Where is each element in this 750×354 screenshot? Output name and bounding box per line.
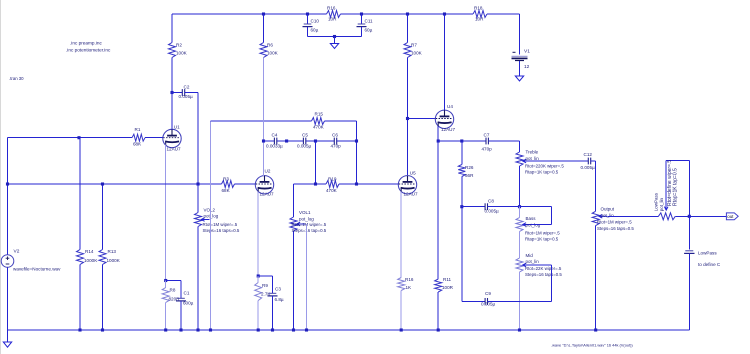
svg-text:C2: C2: [184, 85, 190, 90]
svg-text:100K: 100K: [176, 51, 188, 56]
svg-text:600µ: 600µ: [183, 301, 194, 306]
svg-text:.inc preamp.inc: .inc preamp.inc: [70, 41, 102, 46]
svg-text:470p: 470p: [331, 144, 342, 149]
svg-text:10R: 10R: [475, 17, 484, 22]
svg-text:R13: R13: [108, 249, 117, 254]
svg-text:R16: R16: [327, 6, 336, 11]
svg-text:R1: R1: [135, 127, 141, 132]
svg-text:R6: R6: [267, 43, 273, 48]
svg-text:VOL1: VOL1: [299, 210, 311, 215]
svg-text:Treble: Treble: [526, 150, 539, 155]
svg-text:Steps=16 taps=0.5: Steps=16 taps=0.5: [597, 226, 634, 231]
svg-text:R11: R11: [443, 277, 452, 282]
svg-text:C11: C11: [365, 19, 374, 24]
svg-text:1000K: 1000K: [84, 258, 98, 263]
svg-text:60µ: 60µ: [365, 28, 373, 33]
svg-text:R7: R7: [411, 43, 417, 48]
svg-text:68K: 68K: [133, 142, 142, 147]
svg-text:100K: 100K: [267, 51, 279, 56]
svg-text:C4: C4: [272, 133, 278, 138]
svg-text:LowPass: LowPass: [654, 192, 659, 211]
svg-text:12AU7: 12AU7: [404, 192, 418, 197]
svg-text:Mid: Mid: [526, 253, 534, 258]
svg-text:470p: 470p: [482, 147, 493, 152]
svg-text:12AU7: 12AU7: [441, 127, 455, 132]
svg-text:0.005µ: 0.005µ: [179, 94, 193, 99]
svg-text:U1: U1: [174, 124, 180, 129]
svg-text:Steps=16 taps=0.5: Steps=16 taps=0.5: [525, 272, 562, 277]
svg-text:12: 12: [524, 64, 530, 70]
svg-text:0.005µ: 0.005µ: [485, 209, 499, 214]
svg-text:V1: V1: [524, 49, 530, 55]
svg-text:Rtot=1M wiper=.5: Rtot=1M wiper=.5: [597, 220, 632, 225]
svg-text:LowPass: LowPass: [698, 250, 717, 255]
svg-text:C8: C8: [488, 199, 494, 204]
svg-text:U5: U5: [410, 170, 416, 175]
svg-text:pot_lin: pot_lin: [659, 198, 664, 212]
svg-text:R8: R8: [170, 288, 176, 293]
svg-text:pot_log: pot_log: [299, 217, 314, 222]
svg-text:C5: C5: [302, 133, 308, 138]
svg-text:R2: R2: [176, 43, 182, 48]
svg-text:R18: R18: [474, 6, 483, 11]
svg-text:0.005µ: 0.005µ: [581, 165, 595, 170]
svg-text:Rtot=22K wiper=.5: Rtot=22K wiper=.5: [525, 266, 562, 271]
svg-text:C10: C10: [311, 19, 320, 24]
svg-text:VOL2: VOL2: [204, 208, 216, 213]
svg-text:10R: 10R: [328, 17, 337, 22]
svg-text:470K: 470K: [313, 125, 325, 130]
svg-text:C12: C12: [584, 152, 593, 157]
svg-text:.tran 30: .tran 30: [9, 76, 24, 81]
svg-text:Output: Output: [601, 207, 615, 212]
svg-text:6.8µ: 6.8µ: [275, 297, 284, 302]
svg-text:C9: C9: [485, 291, 491, 296]
svg-text:Steps=16 taps=0.5: Steps=16 taps=0.5: [203, 228, 240, 233]
svg-text:Rtot=1M wiper=.5: Rtot=1M wiper=.5: [292, 222, 327, 227]
svg-text:12AU7: 12AU7: [167, 146, 181, 151]
svg-text:pot_lin: pot_lin: [526, 259, 540, 264]
svg-text:60µ: 60µ: [311, 28, 319, 33]
svg-text:.inc potentiometer.inc: .inc potentiometer.inc: [66, 48, 111, 53]
svg-text:pot_lin: pot_lin: [601, 213, 615, 218]
svg-text:0.0033µ: 0.0033µ: [266, 144, 283, 149]
svg-text:470K: 470K: [326, 188, 338, 193]
svg-text:R10: R10: [328, 177, 337, 182]
svg-text:Rtap=1K tap=0.5: Rtap=1K tap=0.5: [673, 168, 679, 206]
svg-text:pot_log: pot_log: [204, 214, 219, 219]
svg-text:R15: R15: [315, 112, 324, 117]
svg-text:R3: R3: [223, 177, 229, 182]
svg-text:Rtot=220K wiper=.5: Rtot=220K wiper=.5: [525, 163, 564, 168]
svg-text:12AU7: 12AU7: [260, 192, 274, 197]
svg-text:to define C: to define C: [698, 262, 721, 267]
svg-text:R16: R16: [405, 277, 414, 282]
svg-text:U2: U2: [265, 168, 271, 173]
svg-text:out: out: [727, 214, 734, 219]
svg-text:Rtap=1K tap=0.5: Rtap=1K tap=0.5: [525, 170, 559, 175]
svg-text:100K: 100K: [411, 51, 423, 56]
svg-text:Bass: Bass: [526, 216, 537, 221]
svg-text:R9: R9: [262, 283, 268, 288]
svg-text:0.005µ: 0.005µ: [297, 144, 311, 149]
svg-text:R26: R26: [465, 165, 474, 170]
svg-text:1000K: 1000K: [107, 258, 121, 263]
svg-text:U4: U4: [447, 104, 453, 109]
svg-text:1K: 1K: [406, 285, 413, 290]
svg-text:Rtot=1M wiper=.5: Rtot=1M wiper=.5: [525, 231, 560, 236]
svg-text:C1: C1: [184, 291, 190, 296]
svg-text:Rtap=1K tap=0.5: Rtap=1K tap=0.5: [525, 237, 559, 242]
svg-text:C3: C3: [275, 287, 281, 292]
svg-text:wavefile=Nocturne.wav: wavefile=Nocturne.wav: [13, 267, 61, 272]
svg-text:Steps=16 tap=0.5: Steps=16 tap=0.5: [292, 228, 327, 233]
svg-text:68K: 68K: [222, 188, 231, 193]
svg-text:pot_lin: pot_lin: [526, 156, 540, 161]
svg-text:.wave "D:\L.Taylor\Allen01.wav: .wave "D:\L.Taylor\Allen01.wav" 16 44k (…: [551, 342, 633, 347]
svg-text:100R: 100R: [442, 285, 454, 290]
svg-text:R14: R14: [85, 249, 94, 254]
svg-text:Rtot=1M wiper=.5: Rtot=1M wiper=.5: [203, 222, 238, 227]
svg-text:V2: V2: [14, 249, 20, 255]
svg-text:C6: C6: [332, 133, 338, 138]
svg-text:56R: 56R: [465, 173, 474, 178]
svg-text:C7: C7: [484, 133, 490, 138]
svg-text:0.005µ: 0.005µ: [481, 301, 495, 306]
